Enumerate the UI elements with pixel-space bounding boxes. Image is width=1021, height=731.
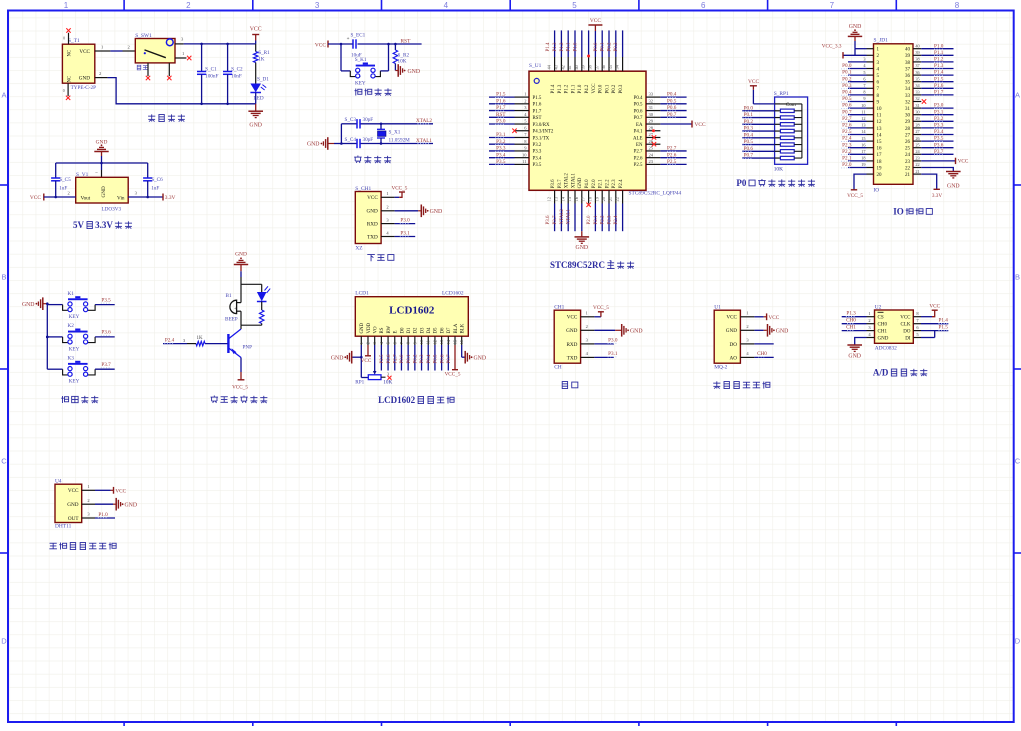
svg-text:P2.3: P2.3: [842, 142, 852, 148]
svg-text:VCC: VCC: [769, 315, 780, 321]
svg-text:P0.4: P0.4: [842, 90, 852, 96]
svg-text:8: 8: [955, 1, 960, 10]
svg-text:P3.4: P3.4: [934, 129, 944, 135]
svg-text:29: 29: [915, 116, 919, 121]
svg-text:P1.1: P1.1: [934, 50, 944, 56]
svg-text:GND: GND: [367, 209, 378, 215]
svg-text:7: 7: [830, 1, 835, 10]
svg-text:P1.6: P1.6: [496, 98, 506, 104]
svg-text:VCC: VCC: [30, 195, 41, 201]
svg-text:6: 6: [701, 1, 706, 10]
svg-text:VCC: VCC: [590, 18, 601, 24]
svg-text:10K: 10K: [383, 380, 392, 386]
svg-text:25: 25: [905, 147, 911, 152]
svg-text:P1.2: P1.2: [934, 57, 944, 63]
svg-text:VCC: VCC: [592, 83, 597, 93]
svg-text:P3.2: P3.2: [496, 139, 506, 145]
svg-text:A/D: A/D: [873, 368, 889, 378]
svg-text:5V: 5V: [73, 220, 85, 230]
svg-text:10K: 10K: [774, 167, 783, 173]
svg-text:34: 34: [905, 87, 911, 92]
svg-text:39: 39: [581, 65, 586, 69]
svg-text:1uF: 1uF: [59, 186, 67, 192]
svg-text:RST: RST: [533, 116, 542, 121]
svg-text:35: 35: [915, 76, 919, 81]
svg-text:B: B: [1, 273, 6, 282]
svg-text:25: 25: [915, 142, 919, 147]
svg-text:24: 24: [905, 153, 911, 158]
svg-text:13: 13: [877, 127, 883, 132]
svg-text:100nF: 100nF: [205, 74, 218, 80]
svg-text:P2.4: P2.4: [619, 179, 624, 188]
svg-text:S_R2: S_R2: [398, 52, 410, 58]
svg-text:ADC0832: ADC0832: [875, 346, 897, 352]
svg-text:P0.4: P0.4: [427, 354, 432, 364]
svg-text:10: 10: [861, 103, 865, 108]
svg-text:P3.6: P3.6: [101, 330, 111, 336]
svg-text:P1.2: P1.2: [560, 42, 565, 52]
svg-text:VCC_5: VCC_5: [847, 193, 863, 199]
svg-text:RXD: RXD: [566, 342, 577, 348]
svg-text:S_C5: S_C5: [59, 177, 71, 183]
svg-text:P2.1: P2.1: [842, 156, 852, 162]
svg-text:VCC_5: VCC_5: [445, 372, 461, 378]
svg-text:C: C: [1, 457, 7, 466]
svg-text:2: 2: [99, 71, 101, 76]
svg-text:P3.4: P3.4: [533, 156, 542, 161]
svg-text:P1.5: P1.5: [934, 76, 944, 82]
svg-text:P0.7: P0.7: [447, 354, 452, 364]
svg-text:LCD1602: LCD1602: [378, 395, 416, 405]
svg-text:8: 8: [406, 342, 411, 344]
svg-text:RS: RS: [380, 327, 385, 333]
svg-text:P0.0: P0.0: [599, 84, 604, 93]
svg-text:KEY: KEY: [69, 379, 80, 385]
svg-text:13: 13: [861, 123, 865, 128]
svg-text:VCC: VCC: [367, 195, 378, 201]
svg-text:CH0: CH0: [878, 323, 888, 328]
svg-text:8: 8: [863, 90, 865, 95]
svg-text:16: 16: [877, 147, 883, 152]
svg-text:DO: DO: [730, 342, 738, 348]
svg-text:P0.1: P0.1: [744, 112, 754, 118]
svg-text:P3.1: P3.1: [496, 132, 506, 138]
svg-text:VCC: VCC: [726, 315, 737, 321]
svg-text:P3.6: P3.6: [934, 142, 944, 148]
svg-text:P3.0: P3.0: [608, 338, 618, 344]
svg-text:A: A: [1, 91, 6, 100]
svg-text:2: 2: [186, 1, 191, 10]
svg-text:32: 32: [905, 100, 911, 105]
svg-text:−: −: [95, 171, 98, 176]
svg-text:VCC: VCC: [79, 49, 90, 55]
svg-text:33: 33: [649, 92, 654, 97]
svg-text:D: D: [1015, 637, 1021, 646]
svg-text:P2.5: P2.5: [380, 354, 385, 364]
svg-text:GND: GND: [331, 355, 344, 361]
svg-text:P0.3: P0.3: [842, 83, 852, 89]
svg-text:GND: GND: [249, 123, 262, 129]
svg-text:GND: GND: [947, 184, 960, 190]
svg-text:19: 19: [861, 162, 865, 167]
svg-text:P0.2: P0.2: [744, 119, 754, 125]
svg-text:GND: GND: [125, 502, 138, 508]
svg-text:Vin: Vin: [117, 196, 125, 202]
svg-text:EA: EA: [636, 123, 643, 128]
svg-text:KEY: KEY: [69, 314, 80, 320]
svg-text:VCC: VCC: [695, 122, 706, 128]
svg-text:S_U1: S_U1: [529, 63, 542, 69]
svg-text:XTAL2: XTAL2: [565, 173, 570, 189]
svg-text:10K: 10K: [398, 59, 407, 65]
svg-text:P0.0: P0.0: [744, 105, 754, 111]
svg-text:5: 5: [386, 342, 391, 344]
svg-text:1: 1: [182, 51, 184, 56]
svg-text:1: 1: [359, 342, 364, 344]
svg-text:AO: AO: [730, 355, 738, 361]
svg-text:P0.5: P0.5: [434, 354, 439, 364]
svg-text:ALE: ALE: [633, 136, 643, 141]
svg-text:GND: GND: [430, 209, 443, 215]
svg-text:31: 31: [915, 103, 919, 108]
svg-text:1: 1: [87, 484, 89, 489]
svg-text:D3: D3: [420, 327, 425, 334]
svg-text:31: 31: [649, 105, 654, 110]
svg-text:S_V1: S_V1: [76, 172, 89, 178]
svg-text:1: 1: [524, 92, 526, 97]
svg-text:EN: EN: [636, 143, 643, 148]
svg-text:GND: GND: [307, 142, 320, 148]
svg-text:P0.5: P0.5: [667, 98, 677, 104]
svg-text:31: 31: [905, 107, 911, 112]
svg-text:D2: D2: [414, 327, 419, 334]
svg-text:BEEP: BEEP: [225, 317, 238, 323]
svg-text:11: 11: [861, 109, 865, 114]
svg-text:RP1: RP1: [355, 380, 364, 386]
svg-text:33: 33: [905, 94, 911, 99]
svg-text:2: 2: [524, 98, 526, 103]
svg-text:XTAL1: XTAL1: [571, 173, 576, 189]
svg-text:XTAL1: XTAL1: [416, 138, 432, 144]
svg-text:P0.3: P0.3: [420, 354, 425, 364]
svg-text:P2.4: P2.4: [614, 215, 619, 225]
svg-text:P1.2: P1.2: [565, 84, 570, 93]
svg-text:P0.0: P0.0: [400, 354, 405, 364]
svg-text:0: 0: [63, 89, 65, 93]
svg-text:D0: D0: [400, 327, 405, 334]
svg-text:30: 30: [649, 112, 654, 117]
svg-text:GND: GND: [776, 328, 789, 334]
svg-text:29: 29: [649, 119, 654, 124]
svg-text:9: 9: [412, 342, 417, 344]
svg-text:P3.2: P3.2: [533, 143, 542, 148]
svg-text:P2.4: P2.4: [842, 136, 852, 142]
svg-text:P1.0: P1.0: [934, 43, 944, 49]
svg-text:S_C3: S_C3: [344, 117, 356, 123]
svg-text:GND: GND: [578, 177, 583, 188]
svg-text:GND: GND: [79, 75, 90, 81]
svg-text:P2.0: P2.0: [587, 215, 592, 225]
svg-text:P2.6: P2.6: [387, 354, 392, 364]
svg-text:2: 2: [87, 498, 89, 503]
svg-text:KEY: KEY: [355, 81, 366, 87]
svg-text:P4.1: P4.1: [634, 130, 643, 135]
svg-text:P0: P0: [736, 178, 746, 188]
svg-text:12: 12: [861, 116, 865, 121]
svg-text:VCC_5: VCC_5: [593, 305, 609, 311]
svg-text:DHT11: DHT11: [55, 524, 72, 530]
svg-text:39: 39: [905, 54, 911, 59]
svg-text:P0.7: P0.7: [744, 153, 754, 159]
svg-text:IO: IO: [874, 188, 880, 194]
svg-text:P0.2: P0.2: [842, 76, 852, 82]
svg-text:P3.6: P3.6: [551, 179, 556, 188]
svg-text:RW: RW: [387, 326, 392, 334]
svg-text:P0.5: P0.5: [744, 139, 754, 145]
svg-text:GND: GND: [848, 354, 861, 360]
svg-text:DO: DO: [903, 330, 911, 335]
svg-text:1: 1: [101, 45, 103, 50]
svg-text:P2.7: P2.7: [667, 146, 677, 152]
svg-text:CH0: CH0: [846, 318, 856, 324]
svg-text:21: 21: [915, 169, 919, 174]
svg-text:D4: D4: [427, 327, 432, 334]
svg-text:5: 5: [863, 70, 865, 75]
svg-text:2: 2: [128, 45, 130, 50]
svg-text:S_C1: S_C1: [205, 67, 217, 73]
svg-text:VCC: VCC: [250, 27, 262, 33]
svg-text:S_K1: S_K1: [355, 57, 367, 63]
svg-text:P2.0: P2.0: [842, 162, 852, 168]
svg-text:CLK: CLK: [901, 323, 911, 328]
svg-text:12: 12: [877, 120, 883, 125]
svg-text:S_JD1: S_JD1: [874, 38, 889, 44]
svg-text:P3.1: P3.1: [934, 109, 944, 115]
svg-text:38: 38: [588, 65, 593, 69]
svg-text:1: 1: [746, 310, 748, 315]
svg-text:P3.7: P3.7: [553, 215, 558, 225]
svg-text:P3.1/TX: P3.1/TX: [533, 136, 550, 141]
svg-text:0: 0: [63, 37, 65, 41]
svg-text:2: 2: [746, 324, 748, 329]
svg-text:43: 43: [554, 65, 559, 69]
svg-text:14: 14: [877, 133, 883, 138]
svg-text:P3.1: P3.1: [400, 230, 410, 236]
svg-text:P0.4: P0.4: [667, 92, 677, 98]
svg-text:A: A: [1015, 91, 1020, 100]
svg-text:D7: D7: [447, 327, 452, 334]
svg-text:3: 3: [315, 1, 320, 10]
svg-text:P3.4: P3.4: [496, 152, 506, 158]
svg-text:KEY: KEY: [69, 346, 80, 352]
svg-text:P1.1: P1.1: [567, 42, 572, 52]
svg-text:S_SW1: S_SW1: [135, 33, 152, 39]
svg-text:26: 26: [905, 140, 911, 145]
svg-text:P1.5: P1.5: [939, 325, 949, 331]
svg-text:VCC: VCC: [929, 304, 940, 310]
svg-text:22: 22: [915, 162, 919, 167]
svg-text:U4: U4: [55, 478, 62, 484]
svg-text:P3.5: P3.5: [496, 159, 506, 165]
svg-text:25: 25: [649, 146, 654, 151]
svg-text:11: 11: [426, 340, 431, 344]
svg-text:LCD1602: LCD1602: [442, 291, 464, 297]
svg-text:+: +: [347, 37, 350, 42]
svg-text:15: 15: [861, 136, 865, 141]
svg-text:P3.5: P3.5: [533, 163, 542, 168]
svg-text:P0.6: P0.6: [667, 105, 677, 111]
svg-text:P3.7: P3.7: [558, 179, 563, 188]
svg-text:P2.7: P2.7: [842, 116, 852, 122]
svg-text:P1.4: P1.4: [934, 70, 944, 76]
svg-text:P2.6: P2.6: [842, 123, 852, 129]
svg-text:P2.2: P2.2: [842, 149, 852, 155]
svg-text:P3.2: P3.2: [934, 116, 944, 122]
svg-text:1uF: 1uF: [151, 186, 159, 192]
svg-text:P0.1: P0.1: [407, 354, 412, 364]
svg-text:P2.5: P2.5: [842, 129, 852, 135]
svg-text:2: 2: [68, 190, 70, 195]
svg-text:38: 38: [905, 61, 911, 66]
svg-text:P1.4: P1.4: [939, 318, 949, 324]
svg-text:P0.7: P0.7: [842, 109, 852, 115]
svg-text:P3.3: P3.3: [533, 150, 542, 155]
svg-text:1: 1: [64, 1, 69, 10]
svg-text:2: 2: [868, 318, 870, 323]
svg-text:12: 12: [432, 340, 437, 344]
svg-text:35: 35: [905, 81, 911, 86]
svg-text:VCC: VCC: [900, 316, 911, 321]
svg-text:P0.3: P0.3: [619, 84, 624, 93]
svg-text:GND: GND: [630, 328, 643, 334]
svg-text:P0.1: P0.1: [601, 42, 606, 52]
svg-text:P2.7: P2.7: [393, 354, 398, 364]
svg-text:P0.7: P0.7: [634, 116, 643, 121]
svg-text:24: 24: [649, 152, 654, 157]
svg-text:XZ: XZ: [355, 246, 362, 252]
svg-text:18: 18: [588, 197, 593, 201]
svg-text:30pF: 30pF: [363, 137, 374, 143]
svg-text:P1.3: P1.3: [846, 311, 856, 317]
svg-text:13: 13: [439, 340, 444, 344]
svg-text:11.0592M: 11.0592M: [389, 138, 411, 144]
svg-text:3: 3: [372, 342, 377, 344]
svg-text:GND: GND: [96, 139, 108, 145]
svg-text:GND: GND: [726, 328, 737, 334]
svg-text:41: 41: [567, 65, 572, 69]
svg-text:VDD: VDD: [367, 322, 372, 333]
svg-text:33: 33: [915, 90, 919, 95]
svg-text:P3.3: P3.3: [934, 123, 944, 129]
svg-text:S_RP1: S_RP1: [774, 91, 789, 97]
svg-text:P1.4: P1.4: [551, 84, 556, 93]
svg-text:RST: RST: [496, 112, 506, 118]
svg-text:P3.7: P3.7: [934, 149, 944, 155]
svg-text:GND: GND: [878, 336, 889, 341]
svg-text:3.3V: 3.3V: [932, 193, 942, 199]
svg-text:P1.3: P1.3: [934, 63, 944, 69]
svg-text:1: 1: [868, 311, 870, 316]
svg-text:GND: GND: [101, 186, 107, 197]
svg-text:35: 35: [608, 65, 613, 69]
svg-text:9: 9: [863, 96, 865, 101]
svg-text:30: 30: [915, 109, 919, 114]
svg-text:P3.3: P3.3: [496, 146, 506, 152]
svg-text:19: 19: [877, 166, 883, 171]
svg-text:GND: GND: [566, 328, 577, 334]
svg-text:P1.7: P1.7: [533, 109, 542, 114]
svg-text:23: 23: [915, 156, 919, 161]
svg-text:P1.7: P1.7: [934, 90, 944, 96]
svg-text:CH1: CH1: [846, 325, 856, 331]
svg-text:40: 40: [905, 48, 911, 53]
svg-text:P2.5: P2.5: [667, 159, 677, 165]
svg-text:B1: B1: [226, 293, 232, 299]
svg-text:P1.7: P1.7: [496, 105, 506, 111]
svg-text:21: 21: [905, 173, 911, 178]
svg-text:P0.0: P0.0: [842, 63, 852, 69]
svg-text:P1.0: P1.0: [98, 512, 108, 518]
svg-text:29: 29: [905, 120, 911, 125]
svg-text:P2.1: P2.1: [594, 215, 599, 225]
svg-text:P0.6: P0.6: [440, 354, 445, 364]
svg-text:P0.6: P0.6: [634, 109, 643, 114]
svg-text:P3.6: P3.6: [546, 215, 551, 225]
svg-text:22: 22: [905, 166, 911, 171]
svg-text:D1: D1: [407, 327, 412, 334]
svg-text:4: 4: [444, 1, 449, 10]
svg-text:TXD: TXD: [367, 234, 378, 240]
svg-text:P2.2: P2.2: [605, 179, 610, 188]
svg-text:VCC: VCC: [958, 159, 969, 165]
svg-text:GND: GND: [474, 355, 487, 361]
svg-text:22: 22: [615, 197, 620, 201]
svg-text:2: 2: [386, 205, 388, 210]
svg-text:32: 32: [649, 98, 654, 103]
svg-text:LCD1: LCD1: [355, 291, 369, 297]
svg-text:18: 18: [877, 160, 883, 165]
svg-text:37: 37: [905, 67, 911, 72]
svg-text:2: 2: [586, 324, 588, 329]
svg-text:STC89C52RC_LQFP44: STC89C52RC_LQFP44: [629, 191, 682, 197]
svg-text:15: 15: [453, 340, 458, 344]
svg-text:10: 10: [522, 152, 527, 157]
svg-text:RST: RST: [401, 39, 412, 45]
svg-text:LCD1602: LCD1602: [389, 305, 435, 317]
svg-text:GND: GND: [408, 69, 421, 75]
svg-text:P1.1: P1.1: [571, 84, 576, 93]
svg-text:20: 20: [601, 197, 606, 201]
svg-text:Vout: Vout: [81, 196, 91, 202]
svg-text:P2.6: P2.6: [667, 152, 677, 158]
svg-text:P3.5: P3.5: [934, 136, 944, 142]
svg-text:1: 1: [586, 310, 588, 315]
svg-text:OUT: OUT: [68, 516, 79, 522]
svg-text:XTAL1: XTAL1: [567, 209, 572, 225]
svg-text:P2.0: P2.0: [592, 179, 597, 188]
svg-text:3.3V: 3.3V: [95, 220, 113, 230]
svg-text:C: C: [1015, 457, 1021, 466]
svg-text:3: 3: [863, 57, 865, 62]
svg-text:GND: GND: [235, 251, 247, 257]
svg-text:P0.5: P0.5: [634, 103, 643, 108]
svg-text:P0.4: P0.4: [744, 132, 754, 138]
svg-text:23: 23: [905, 160, 911, 165]
svg-text:2: 2: [365, 342, 370, 344]
svg-text:P2.5: P2.5: [634, 163, 643, 168]
svg-text:P1.3: P1.3: [558, 84, 563, 93]
svg-text:P3.0/RX: P3.0/RX: [533, 123, 550, 128]
